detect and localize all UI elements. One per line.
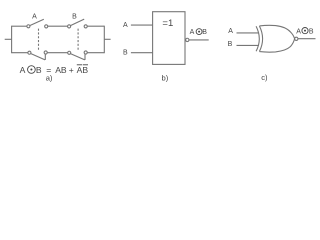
wire right rail a) <box>103 26 105 54</box>
svg-text:A: A <box>32 13 37 20</box>
IEC XNOR box U1 <box>153 12 185 65</box>
svg-text:a): a) <box>46 73 53 82</box>
wire between switch A and switch B <box>48 25 68 27</box>
XNOR gate U2 input arc <box>256 26 259 51</box>
wire top-right branch a) <box>87 25 104 27</box>
svg-text:B: B <box>36 65 42 75</box>
svg-text:A: A <box>228 28 233 35</box>
svg-text:AB: AB <box>77 65 89 75</box>
wire input A c) <box>237 32 259 34</box>
wire input A b) <box>131 24 153 26</box>
svg-text:A: A <box>20 65 26 75</box>
switch A right terminal <box>45 25 48 28</box>
svg-text:AB: AB <box>55 65 67 75</box>
switch B-bar lever <box>71 54 85 60</box>
wire input B c) <box>237 44 259 46</box>
wire bottom-left branch a) <box>12 52 28 54</box>
wire right stub a) <box>104 38 110 40</box>
formula XNOR dot-circle symbol <box>28 66 36 74</box>
svg-text:B: B <box>123 50 128 57</box>
svg-text:B: B <box>202 29 207 36</box>
output XNOR dot-circle symbol c) <box>302 28 308 34</box>
wire input B b) <box>131 52 153 54</box>
svg-text:B: B <box>72 13 77 20</box>
switch B-bar left terminal <box>68 51 71 54</box>
wire left stub a) <box>5 38 12 40</box>
wire bottom-right branch a) <box>87 52 104 54</box>
switch A-bar left terminal <box>28 51 31 54</box>
svg-text:c): c) <box>261 73 268 82</box>
overline of A-bar <box>77 64 82 66</box>
wire output b) <box>189 39 209 41</box>
switch B left terminal <box>68 25 71 28</box>
switch A-bar lever <box>31 54 45 60</box>
output XNOR dot-circle symbol b) <box>196 29 202 35</box>
inversion bubble c) <box>295 37 298 40</box>
svg-text:b): b) <box>162 74 169 83</box>
wire top-left branch a) <box>12 25 27 27</box>
svg-text:A: A <box>190 29 195 36</box>
mechanical link B dashed <box>77 29 79 51</box>
wire output c) <box>298 38 315 40</box>
svg-text:+: + <box>69 65 74 75</box>
svg-text:B: B <box>228 41 233 48</box>
wire between switch A-bar and switch B-bar <box>47 52 67 54</box>
svg-text:B: B <box>309 28 314 35</box>
switch B lever <box>71 19 85 25</box>
svg-text:A: A <box>296 28 301 35</box>
switch B-bar contact tick <box>84 54 86 60</box>
mechanical link A dashed <box>38 29 40 51</box>
wire left rail a) <box>11 26 13 54</box>
switch B-bar right terminal <box>84 51 87 54</box>
switch A left terminal <box>27 25 30 28</box>
overline of B-bar <box>83 64 88 66</box>
inversion bubble b) <box>186 38 189 41</box>
XNOR gate U2 body <box>259 25 294 52</box>
svg-text:=1: =1 <box>162 18 173 29</box>
switch A-bar right terminal <box>44 51 47 54</box>
switch A lever <box>30 19 44 25</box>
switch B right terminal <box>84 25 87 28</box>
svg-text:A: A <box>123 22 128 29</box>
switch A-bar contact tick <box>44 54 46 60</box>
